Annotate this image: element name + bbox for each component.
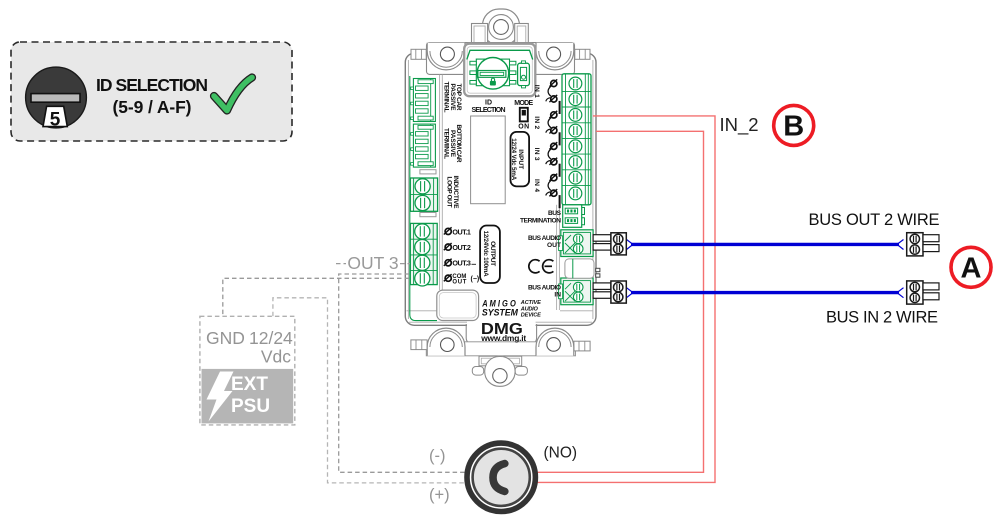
svg-text:(5-9 / A-F): (5-9 / A-F) xyxy=(113,97,192,117)
label OUT.3 xyxy=(444,259,471,268)
DMG logo xyxy=(480,321,526,343)
svg-text:TERMINAL: TERMINAL xyxy=(443,128,450,159)
label (NO) xyxy=(544,445,578,462)
svg-text:LOOP OUT: LOOP OUT xyxy=(446,177,453,208)
svg-text:BUS IN 2 WIRE: BUS IN 2 WIRE xyxy=(826,308,938,326)
top mounting tab xyxy=(472,9,529,46)
svg-text:BUS OUT 2 WIRE: BUS OUT 2 WIRE xyxy=(809,211,940,229)
green checkmark xyxy=(214,78,252,111)
left bay walls xyxy=(407,75,443,311)
pcb green edge left xyxy=(410,76,437,321)
input spec box xyxy=(510,132,529,187)
svg-text:B: B xyxy=(783,111,804,143)
svg-text:12/24: 12/24 xyxy=(249,328,293,348)
terminal strip 8p xyxy=(562,74,591,205)
svg-text:ID SELECTION: ID SELECTION xyxy=(96,75,208,95)
label BUS IN 2 WIRE xyxy=(826,308,938,326)
label OUT.1 xyxy=(444,227,471,236)
mounting ear top-right xyxy=(536,43,574,70)
label BUS AUDIO OUT xyxy=(528,235,561,249)
black connector at module BUS IN xyxy=(593,281,626,303)
red wire W2 from IN2 bottom to button upper xyxy=(538,131,704,472)
label COM OUT xyxy=(444,274,479,286)
red wire W1 from IN2 top to button lower xyxy=(538,116,716,483)
svg-text:PSU: PSU xyxy=(231,396,270,417)
label OUT.2 xyxy=(444,243,471,252)
svg-text:OUT.3: OUT.3 xyxy=(452,259,471,268)
edge stubs right xyxy=(596,268,600,277)
bottom plate xyxy=(426,342,575,356)
svg-text:(−): (−) xyxy=(471,276,480,283)
bottom tab xyxy=(472,356,527,386)
svg-text:DEVICE: DEVICE xyxy=(521,313,541,319)
svg-text:5: 5 xyxy=(50,110,61,131)
dashed wire OUT 3 xyxy=(336,263,476,266)
plug bus audio in xyxy=(559,278,594,305)
svg-text:OUT: OUT xyxy=(547,242,561,249)
label BOTTOM CAR PASSIVE TERMINAL xyxy=(443,125,463,163)
svg-text:OUT 3: OUT 3 xyxy=(347,253,398,273)
blue wire BUS OUT xyxy=(627,240,904,250)
svg-text:GND: GND xyxy=(206,328,245,348)
svg-text:TERMINATION: TERMINATION xyxy=(520,217,561,224)
mounting ear bottom-right xyxy=(536,328,574,356)
bus termination block xyxy=(563,205,585,228)
svg-text:(NO): (NO) xyxy=(544,445,578,462)
blue wire BUS IN xyxy=(627,288,904,298)
label (-) xyxy=(429,447,445,465)
EXT PSU box xyxy=(200,316,295,425)
svg-text:AUDIO: AUDIO xyxy=(520,306,539,312)
svg-text:ACTIVE: ACTIVE xyxy=(520,300,541,306)
connector top car xyxy=(411,79,436,122)
dashed wire COM OUT to GND xyxy=(223,278,409,316)
bottom chin xyxy=(466,320,536,344)
bottom clip tabs xyxy=(411,340,590,351)
svg-text:ID: ID xyxy=(485,100,492,107)
label GND 12/24 Vdc xyxy=(206,328,293,367)
mode dip switch xyxy=(520,108,528,122)
label INDUCTIVE LOOP OUT xyxy=(446,176,459,210)
mounting ear bottom-left xyxy=(427,328,465,356)
top raised section xyxy=(427,43,575,75)
node IN_2 label xyxy=(720,114,759,136)
svg-text:BUS: BUS xyxy=(548,210,562,217)
CE mark xyxy=(529,260,554,273)
svg-text:OUTPUT: OUTPUT xyxy=(489,241,496,266)
svg-text:IN 2: IN 2 xyxy=(533,116,540,129)
connector bottom car xyxy=(411,124,436,167)
notch bottom-left xyxy=(437,290,479,320)
svg-text:OUT: OUT xyxy=(452,280,466,286)
dashed wire PSU 12/24 to button (+) xyxy=(273,298,465,483)
right bay walls xyxy=(557,205,593,311)
label IN 3 xyxy=(533,148,540,161)
mounting ear top-left xyxy=(427,43,465,70)
svg-text:12/24Vdc 100mA: 12/24Vdc 100mA xyxy=(482,231,489,278)
contact IN4 xyxy=(546,174,557,197)
main body xyxy=(405,53,596,325)
recess between audio plugs xyxy=(565,259,594,278)
label ACTIVE AUDIO DEVICE xyxy=(520,300,541,318)
label EXT PSU xyxy=(231,374,270,417)
label TOP CAR PASSIVE TERMINAL xyxy=(443,82,463,113)
label ON xyxy=(518,124,529,131)
svg-text:IN 1: IN 1 xyxy=(533,85,540,98)
svg-text:BUS AUDIO: BUS AUDIO xyxy=(528,285,561,292)
label BUS AUDIO IN xyxy=(528,285,561,299)
svg-text:EXT: EXT xyxy=(231,374,268,395)
contact separators xyxy=(559,101,561,208)
label ID SELECTION xyxy=(472,100,506,114)
svg-text:IN 3: IN 3 xyxy=(533,148,540,161)
svg-text:TERMINAL: TERMINAL xyxy=(443,82,450,113)
PCB module AMIGO xyxy=(405,9,600,386)
svg-text:SYSTEM: SYSTEM xyxy=(482,308,518,318)
plug bus audio out xyxy=(559,230,594,257)
label IN 4 xyxy=(533,179,540,192)
svg-text:SELECTION: SELECTION xyxy=(472,107,506,114)
svg-text:IN_2: IN_2 xyxy=(720,114,759,136)
svg-text:OUT.1: OUT.1 xyxy=(452,227,471,236)
label MODE xyxy=(514,100,533,107)
svg-text:ON: ON xyxy=(518,124,529,131)
label BUS OUT 2 WIRE xyxy=(809,211,940,229)
svg-text:IN: IN xyxy=(554,292,561,299)
svg-text:BUS AUDIO: BUS AUDIO xyxy=(528,235,561,242)
mode selector component xyxy=(518,61,530,88)
ID SELECTION label xyxy=(96,75,208,117)
lightning bolt EXT PSU xyxy=(207,372,234,422)
terminal output 4p xyxy=(410,223,437,286)
terminal inductive loop xyxy=(410,178,437,211)
side clip tabs xyxy=(411,49,590,59)
push button phone xyxy=(467,443,535,511)
svg-text:A: A xyxy=(961,252,982,284)
svg-text:MODE: MODE xyxy=(514,100,533,107)
contact IN3 xyxy=(546,142,557,165)
contact IN2 xyxy=(546,111,557,134)
callout B xyxy=(774,105,814,145)
svg-text:Vdc: Vdc xyxy=(261,347,291,367)
rotary ID dial xyxy=(470,58,516,90)
connector plug BUS OUT right xyxy=(907,233,939,256)
pcb window green edge xyxy=(467,50,533,59)
solder pads left xyxy=(420,170,436,217)
label OUT 3 xyxy=(347,253,398,273)
legend box ID selection xyxy=(11,42,292,141)
connector plug BUS IN right xyxy=(907,281,939,304)
label BUS TERMINATION xyxy=(520,210,562,224)
label IN 2 xyxy=(533,116,540,129)
svg-text:www.dmg.it: www.dmg.it xyxy=(480,333,526,343)
output spec box xyxy=(480,226,500,284)
central cutout rect xyxy=(471,116,506,204)
svg-text:(-): (-) xyxy=(429,447,445,465)
black connector at module BUS OUT xyxy=(593,233,626,255)
contact IN1 xyxy=(546,79,557,102)
label (+) xyxy=(429,486,450,504)
label AMIGO SYSTEM xyxy=(481,299,518,318)
knob icon with 5 xyxy=(26,67,87,130)
svg-text:(+): (+) xyxy=(429,486,450,504)
dial housing xyxy=(464,44,535,96)
label IN 1 xyxy=(533,85,540,98)
svg-text:IN 4: IN 4 xyxy=(533,179,540,192)
svg-text:OUT.2: OUT.2 xyxy=(452,243,471,252)
callout A xyxy=(951,247,991,287)
dashed wire COM OUT to button (-) xyxy=(339,274,465,472)
svg-text:12/24 Vdc 5mA: 12/24 Vdc 5mA xyxy=(510,138,517,181)
